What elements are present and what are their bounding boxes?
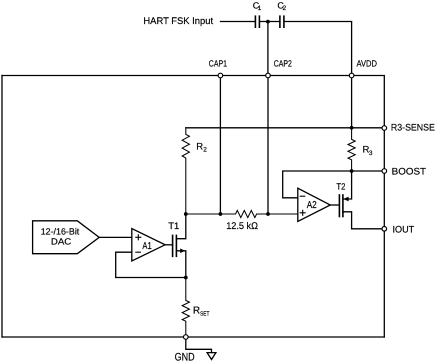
node junction C1/C2	[266, 20, 270, 24]
wire C2 right then down to AVDD	[285, 22, 352, 76]
terminal IOUT	[382, 225, 414, 236]
terminal GND	[184, 335, 189, 340]
node junction AVDD column / R3-SENSE line	[350, 76, 354, 130]
op-amp A1	[132, 229, 165, 262]
wire A1 feedback loop	[116, 252, 186, 277]
terminal CAP1	[209, 58, 227, 77]
wire R3-SENSE line	[186, 127, 384, 129]
terminal CAP2	[266, 58, 292, 77]
svg-text:T1: T1	[168, 221, 179, 232]
wire GND stub	[186, 337, 212, 353]
capacitor C2	[277, 0, 286, 27]
resistor 12.5 kOhm	[186, 210, 298, 232]
resistor R3	[348, 128, 373, 171]
wire DAC to A1	[99, 236, 132, 238]
svg-text:12-/16-Bit: 12-/16-Bit	[41, 226, 80, 236]
wire AVDD to right rail top	[352, 76, 385, 129]
svg-text:12.5 kΩ: 12.5 kΩ	[226, 221, 258, 232]
wire CAP2 column down	[267, 76, 269, 215]
wire C1/C2 junction down to CAP2	[267, 22, 269, 76]
ground symbol	[207, 353, 216, 360]
terminal R3-SENSE	[382, 122, 435, 133]
svg-text:CAP1: CAP1	[209, 58, 227, 68]
svg-text:1: 1	[258, 5, 262, 12]
svg-text:R3-SENSE: R3-SENSE	[391, 122, 435, 133]
op-amp A2	[298, 188, 331, 221]
svg-text:R: R	[193, 306, 200, 317]
svg-text:CAP2: CAP2	[274, 58, 292, 68]
node junction T1 drain / R2	[184, 212, 188, 216]
svg-text:T2: T2	[336, 181, 345, 191]
svg-text:GND: GND	[175, 351, 195, 363]
svg-text:SET: SET	[200, 311, 210, 318]
wire HART input lead to C1	[221, 21, 255, 23]
wire left rail	[1, 76, 3, 338]
terminal BOOST	[382, 166, 426, 177]
svg-text:2: 2	[203, 146, 207, 153]
wire right rail	[383, 128, 385, 337]
wire top rail	[2, 75, 352, 77]
resistor RSET	[182, 278, 209, 338]
svg-text:A1: A1	[142, 241, 152, 252]
svg-text:A2: A2	[307, 200, 317, 211]
svg-text:IOUT: IOUT	[393, 225, 415, 236]
terminal AVDD	[349, 59, 377, 78]
node junction CAP2 column	[266, 212, 270, 216]
wire A2 feedback to BOOST node	[283, 171, 352, 198]
node junction BOOST / R3 / T2 drain	[350, 169, 354, 173]
block DAC 12-/16-Bit	[33, 221, 100, 254]
svg-text:2: 2	[283, 5, 287, 12]
resistor R2	[182, 128, 207, 214]
wire BOOST line	[352, 170, 385, 172]
svg-text:HART FSK Input: HART FSK Input	[143, 16, 213, 27]
wire CAP1 column down	[219, 76, 221, 215]
node junction CAP1 column	[219, 212, 223, 216]
svg-text:BOOST: BOOST	[392, 166, 426, 177]
svg-text:3: 3	[369, 150, 373, 157]
transistor T2	[330, 171, 384, 229]
svg-text:DAC: DAC	[51, 237, 72, 247]
node junction A1 feedback / T1 source	[184, 276, 188, 280]
capacitor C1	[253, 0, 262, 27]
wire C1 to C2	[260, 21, 279, 23]
svg-text:AVDD: AVDD	[357, 59, 378, 69]
wire bottom rail	[2, 336, 384, 338]
transistor T1	[165, 214, 186, 278]
